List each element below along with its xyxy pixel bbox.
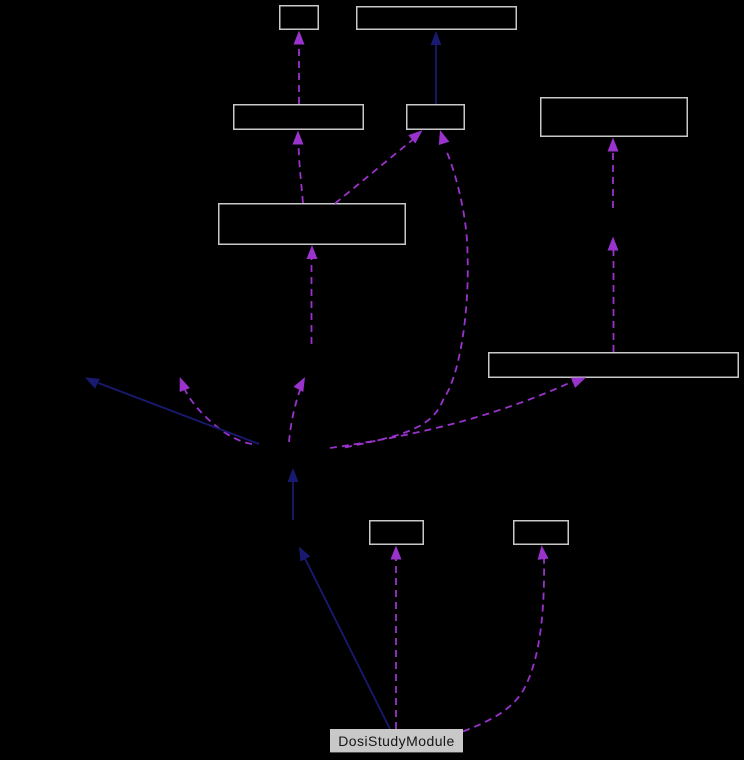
svg-text:DosiStudyModule: DosiStudyModule — [338, 733, 454, 749]
